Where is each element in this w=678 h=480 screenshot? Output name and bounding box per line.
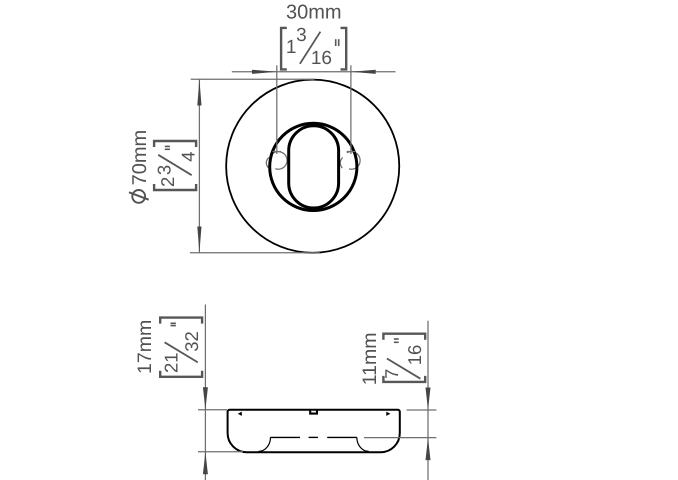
inner fillet right — [357, 437, 369, 451]
30mm left extension line — [276, 65, 278, 154]
30mm left extension tick — [273, 151, 282, 153]
Ø70 dimension line — [198, 79, 200, 253]
11mm top extension line — [407, 409, 437, 411]
17mm down arrow — [203, 387, 208, 410]
Ø70 up arrow — [197, 79, 201, 105]
side view profile — [228, 410, 400, 452]
svg-text:7: 7 — [381, 369, 402, 379]
label Ø70mm rotated: diameter symbol — [132, 190, 145, 203]
inner cavity line segment 1 — [271, 436, 301, 438]
30mm right extension line — [350, 65, 352, 154]
inner cavity line segment 3 — [327, 436, 357, 438]
17mm top extension line — [198, 409, 227, 411]
label bracket fraction 2 3/4 inch rotated — [153, 141, 198, 190]
Ø70 bottom extension line — [190, 252, 320, 254]
svg-text:17mm: 17mm — [134, 320, 156, 374]
svg-text:30mm: 30mm — [286, 1, 342, 23]
30mm dimension line — [232, 71, 396, 73]
notch — [310, 410, 317, 413]
17mm dimension line — [204, 305, 206, 480]
inner fillet left — [259, 437, 271, 451]
svg-text:3: 3 — [296, 25, 307, 46]
11mm up arrow — [426, 438, 431, 461]
label bracket fraction 1 3/16 inch — [281, 25, 346, 69]
11mm bottom extension line — [364, 437, 437, 439]
label bracket fraction 7/16 inch rotated — [381, 334, 425, 382]
svg-text:4: 4 — [178, 151, 199, 161]
right fixing hole hidden circle — [347, 152, 360, 170]
11mm dimension line — [427, 321, 429, 480]
30mm right arrow — [351, 70, 376, 74]
svg-text:32: 32 — [181, 331, 202, 352]
svg-text:11mm: 11mm — [359, 333, 381, 386]
Ø70 top extension line — [191, 78, 315, 80]
left snap arc — [266, 157, 269, 168]
svg-text:70mm: 70mm — [129, 130, 151, 186]
svg-text:1: 1 — [286, 37, 297, 58]
thumbturn stadium — [289, 126, 339, 208]
label 70mm rotated — [129, 130, 151, 186]
label bracket fraction 21/32 inch rotated — [160, 318, 202, 377]
left fixing hole hidden circle — [272, 152, 288, 170]
label 11mm rotated — [359, 333, 381, 386]
svg-text:16: 16 — [311, 48, 332, 69]
label 17mm rotated — [134, 320, 156, 374]
svg-text:16: 16 — [404, 345, 425, 366]
left clip mark — [238, 412, 242, 416]
inner cavity line segment 2 — [309, 436, 318, 438]
svg-text:3: 3 — [153, 165, 174, 175]
30mm left arrow — [252, 70, 277, 74]
30mm right extension tick — [347, 151, 356, 153]
svg-text:2: 2 — [157, 177, 178, 187]
right snap arc — [340, 158, 343, 169]
17mm up arrow — [203, 452, 208, 475]
Ø70 down arrow — [197, 227, 201, 253]
11mm down arrow — [426, 388, 431, 411]
outer circle rosette Ø70 top view — [226, 80, 399, 253]
right clip mark — [386, 412, 390, 416]
inner circle cap boss — [270, 123, 357, 210]
17mm bottom extension line — [198, 451, 243, 453]
svg-text:21: 21 — [160, 352, 181, 373]
